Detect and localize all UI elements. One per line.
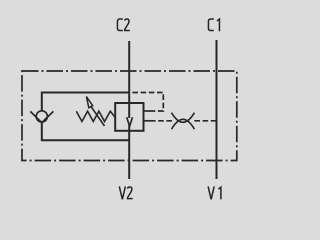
wire: C1 to V1 line [216, 40, 218, 179]
check valve ball (circle) [36, 111, 47, 122]
wire: main line valve to V2 (lower) [128, 125, 130, 179]
port label V2 [119, 186, 132, 199]
relief valve body U1 (square) [115, 103, 143, 131]
pilot line (dashed) upper loop from C2 line to valve right side [132, 93, 163, 112]
check valve seat (V) [30, 111, 53, 122]
adjustment arrowhead (open, pointing up-left) [86, 97, 92, 108]
adjustment arrow shaft (diagonal) [91, 107, 104, 126]
wire: check-valve branch bottom rail [42, 122, 129, 141]
port label V1 [208, 186, 221, 199]
port label C2 [117, 19, 129, 31]
pilot line (dashed) orifice to C1 line [194, 120, 215, 122]
pilot line (dashed) valve to orifice [150, 120, 172, 122]
spring (zigzag) [76, 111, 115, 121]
solid stub: valve right to lower pilot [144, 120, 151, 122]
valve assembly envelope boundary (dash-dot) [22, 71, 237, 161]
port label C1 [208, 19, 219, 31]
flow arrowhead inside valve (open V pointing down) [127, 117, 133, 126]
wire: main line C2 to valve (upper) [128, 41, 130, 118]
orifice / restrictor (two arcs) [172, 113, 195, 123]
solid stub: valve right to upper pilot [144, 110, 151, 112]
wire: check-valve branch top rail [42, 93, 129, 112]
